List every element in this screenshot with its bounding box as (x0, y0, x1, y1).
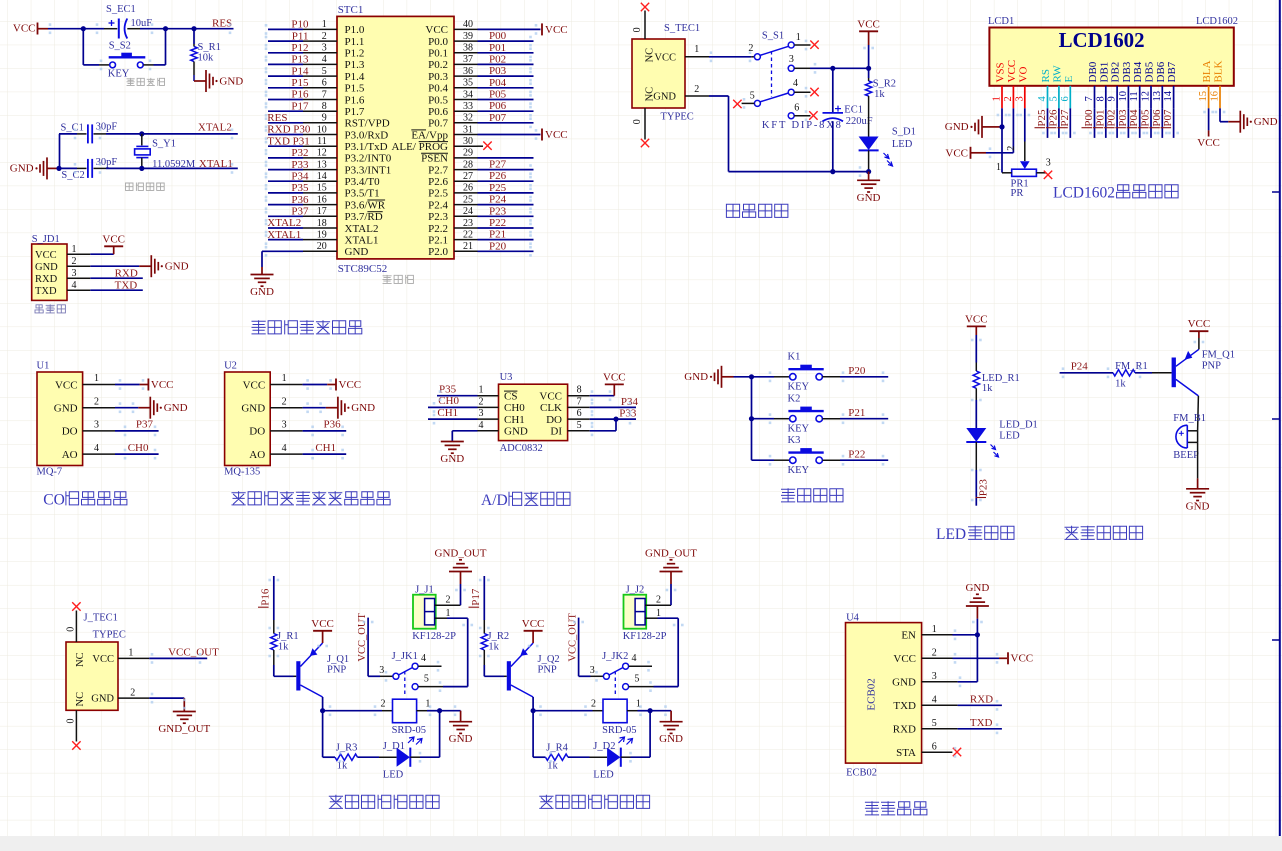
svg-text:P04: P04 (1128, 109, 1140, 127)
svg-text:DB1: DB1 (1098, 62, 1110, 83)
svg-text:P37: P37 (291, 206, 309, 218)
svg-text:P3.4/T0: P3.4/T0 (345, 176, 381, 188)
svg-text:EC1: EC1 (844, 105, 863, 116)
wire J_D1 to right branch (410, 756, 420, 758)
svg-text:DB3: DB3 (1121, 61, 1133, 82)
svg-text:FM_B1: FM_B1 (1173, 413, 1206, 424)
svg-text:K1: K1 (788, 352, 801, 363)
U1 DO wire net P37 (115, 430, 159, 432)
svg-text:1: 1 (996, 162, 1001, 173)
svg-text:SRD-05: SRD-05 (602, 725, 636, 736)
svg-text:CH0: CH0 (504, 402, 525, 414)
wire gnd up to S_C1 row (59, 134, 61, 169)
svg-text:38: 38 (463, 43, 473, 54)
svg-text:NC: NC (75, 652, 86, 667)
svg-text:P23: P23 (977, 479, 989, 497)
connector S_TEC1 TYPEC body (632, 39, 685, 108)
svg-text:P2.7: P2.7 (428, 164, 448, 176)
U4 pin 1 EN (901, 624, 936, 642)
svg-text:P04: P04 (489, 77, 507, 89)
svg-text:P11: P11 (292, 30, 309, 42)
svg-text:2: 2 (1003, 96, 1014, 101)
svg-text:28: 28 (463, 159, 473, 170)
coil right wire (417, 710, 427, 712)
mcu pin 27 P2.6 (428, 170, 533, 188)
svg-text:P26: P26 (489, 170, 507, 182)
connector S_JD1 pin 1 VCC (35, 244, 90, 261)
S_TEC1 bottom pin 0 no-connect (632, 108, 649, 147)
svg-text:DI: DI (550, 426, 562, 438)
S_TEC1 pin 1 VCC (654, 44, 754, 64)
power port VCC U2 (335, 379, 337, 391)
svg-text:P3.0/RxD: P3.0/RxD (345, 129, 389, 141)
svg-text:P05: P05 (489, 89, 507, 101)
svg-text:P35: P35 (439, 384, 457, 396)
node junction crystal bottom (139, 166, 144, 171)
lcd data wire and net label P07 (1161, 108, 1175, 138)
svg-text:RW: RW (1051, 65, 1063, 83)
svg-text:ECB02: ECB02 (846, 768, 877, 779)
svg-text:S_EC1: S_EC1 (106, 4, 136, 15)
svg-text:1: 1 (479, 385, 484, 396)
mcu pin 13 P3.3/INT1 (268, 159, 391, 177)
svg-text:GND: GND (241, 403, 265, 415)
svg-text:39: 39 (463, 31, 473, 42)
svg-text:P17: P17 (470, 588, 482, 606)
J_TEC1 bottom pin 0 (66, 710, 81, 749)
svg-text:TXD: TXD (115, 279, 138, 291)
mcu pin 37 P0.2 (428, 53, 533, 71)
svg-text:15: 15 (1198, 91, 1209, 102)
svg-text:3: 3 (94, 420, 99, 431)
adc pin 7 CLK (540, 396, 590, 414)
svg-text:P2.1: P2.1 (428, 234, 448, 246)
svg-text:8: 8 (1095, 96, 1106, 101)
mcu U? STC1 body (337, 16, 454, 259)
node junction coil right (437, 708, 442, 713)
svg-text:P25: P25 (1036, 109, 1048, 127)
node junction adc DO-DI (613, 417, 618, 422)
svg-text:VCC: VCC (654, 53, 676, 64)
adc pin 4 GND (478, 420, 528, 438)
svg-text:GND_OUT: GND_OUT (158, 723, 210, 735)
node junction coil right (648, 708, 653, 713)
svg-text:P06: P06 (1151, 109, 1163, 127)
svg-text:18: 18 (317, 218, 327, 229)
svg-text:1: 1 (128, 648, 133, 659)
svg-text:P0.7: P0.7 (428, 118, 448, 130)
svg-text:10k: 10k (198, 52, 215, 63)
svg-text:J_J1: J_J1 (415, 584, 434, 595)
svg-text:1: 1 (656, 608, 661, 619)
svg-text:0: 0 (66, 627, 77, 632)
svg-text:P02: P02 (489, 53, 506, 65)
power ground GND adc (451, 440, 453, 443)
svg-text:S_C2: S_C2 (61, 170, 84, 181)
mcu pin 16 P3.6/WR (268, 194, 386, 212)
sensor U1 MQ-7 body (37, 372, 83, 466)
sensor U2 MQ-135 body (225, 372, 271, 466)
svg-text:29: 29 (463, 148, 473, 159)
wire S_C1 to XTAL2 (106, 133, 238, 135)
svg-text:1: 1 (322, 19, 327, 30)
power ground GND buzzer (1197, 478, 1199, 488)
svg-text:P2.2: P2.2 (428, 223, 448, 235)
resistor S_R2 1k (865, 68, 896, 105)
svg-text:31: 31 (463, 124, 473, 135)
svg-text:TYPEC: TYPEC (661, 112, 694, 123)
power ground GND keys (722, 376, 734, 378)
adc pin 5 DI (550, 420, 589, 438)
svg-text:P2.3: P2.3 (428, 211, 448, 223)
svg-text:P22: P22 (848, 449, 865, 461)
node junction led bottom (866, 169, 871, 174)
svg-text:10: 10 (317, 124, 327, 135)
svg-text:P10: P10 (291, 19, 309, 31)
svg-text:VCC: VCC (102, 233, 125, 245)
potentiometer PR1 (996, 146, 1052, 200)
svg-text:LED_D1: LED_D1 (999, 420, 1038, 431)
lcd BLK wire to GND (1219, 108, 1221, 121)
adc pin 2 CH0 (478, 396, 526, 414)
power ground GND S_JD1 (139, 265, 151, 267)
mcu pin 40 VCC (425, 19, 567, 36)
svg-text:P05: P05 (1140, 109, 1152, 127)
svg-text:XTAL1: XTAL1 (345, 234, 379, 246)
node junction at S_R1 (191, 26, 196, 31)
svg-text:1k: 1k (874, 89, 885, 100)
svg-text:1: 1 (796, 32, 801, 43)
U1 pin 3 DO (62, 420, 115, 438)
mcu pin 9 RST/VPD (267, 112, 389, 130)
svg-text:26: 26 (463, 183, 473, 194)
sheet border right (1272, 0, 1280, 836)
wire coil to gnd (650, 710, 671, 712)
svg-text:MQ-7: MQ-7 (37, 467, 63, 478)
svg-text:P21: P21 (489, 229, 506, 241)
svg-text:VCC_OUT: VCC_OUT (357, 613, 368, 662)
U2 AO wire net CH1 (303, 453, 347, 455)
adc CH1 wire (428, 418, 478, 420)
svg-text:P24: P24 (489, 194, 507, 206)
mcu pin 2 P1.1 (268, 30, 364, 48)
wire collector to coil row (322, 697, 324, 711)
svg-text:J_R1: J_R1 (277, 631, 299, 642)
connector S_JD1 pin 3 RXD (35, 268, 90, 285)
svg-text:1: 1 (446, 608, 451, 619)
node junction right of S_EC1 (163, 26, 168, 31)
svg-text:LED: LED (383, 770, 404, 781)
svg-text:BEEP: BEEP (1173, 450, 1199, 461)
lcd data wire and net label P01 (1093, 108, 1107, 138)
node junction key1 (749, 374, 754, 379)
power ground GND lcd left (982, 126, 994, 128)
title 蓝牙模块 (865, 802, 927, 815)
svg-text:6: 6 (577, 408, 582, 419)
svg-text:P34: P34 (621, 396, 639, 408)
svg-text:VCC: VCC (1188, 318, 1211, 330)
svg-text:P15: P15 (291, 77, 309, 89)
svg-text:14: 14 (1163, 90, 1174, 101)
svg-text:DB0: DB0 (1087, 61, 1099, 82)
svg-text:A/D: A/D (481, 492, 508, 509)
svg-text:2: 2 (932, 647, 937, 658)
svg-text:LED: LED (999, 431, 1020, 442)
svg-text:BLA: BLA (1201, 60, 1213, 82)
lcd pin 14 DB7 (1163, 61, 1178, 108)
svg-text:LCD1602: LCD1602 (1053, 185, 1115, 202)
svg-text:12: 12 (1141, 91, 1152, 102)
wire down to flyback row (532, 711, 534, 758)
title 蜂鸣器电路 (1065, 526, 1143, 539)
svg-text:P2.5: P2.5 (428, 188, 448, 200)
svg-text:3: 3 (932, 671, 937, 682)
svg-text:P3.3/INT1: P3.3/INT1 (345, 164, 392, 176)
svg-text:36: 36 (463, 66, 473, 77)
svg-text:35: 35 (463, 78, 473, 89)
U4 pin 4 TXD (893, 694, 936, 712)
connector S_JD1 pin 4 TXD (35, 280, 90, 297)
svg-text:33: 33 (463, 101, 473, 112)
svg-text:GND: GND (1186, 500, 1210, 512)
svg-text:23: 23 (463, 218, 473, 229)
switch S_S1 KFT DIP-8X8 (733, 31, 841, 131)
resistor J_R3 1k flyback (335, 743, 358, 772)
adc CLK wire net P34 (590, 406, 636, 408)
svg-text:13: 13 (1152, 91, 1163, 102)
svg-text:8: 8 (322, 101, 327, 112)
svg-text:KF128-2P: KF128-2P (412, 631, 456, 642)
svg-text:5: 5 (322, 66, 327, 77)
svg-text:2: 2 (130, 688, 135, 699)
svg-text:S_Y1: S_Y1 (152, 139, 176, 150)
wire emitter to VCC (1198, 338, 1200, 349)
svg-text:J_D1: J_D1 (383, 741, 405, 752)
svg-text:37: 37 (463, 54, 473, 65)
svg-text:16: 16 (1210, 91, 1221, 102)
svg-text:P17: P17 (291, 100, 309, 112)
svg-text:P2.0: P2.0 (428, 246, 448, 258)
svg-text:XTAL1: XTAL1 (267, 229, 301, 241)
svg-text:GND: GND (892, 677, 916, 689)
power ground GND relay (460, 711, 462, 722)
wire coil to gnd (440, 710, 461, 712)
svg-text:S_D1: S_D1 (892, 127, 916, 138)
mcu pin 5 P1.4 (268, 65, 365, 83)
svg-text:PR: PR (1011, 188, 1024, 199)
svg-text:P34: P34 (291, 170, 309, 182)
svg-text:VO: VO (1017, 67, 1029, 83)
wire S_JD1 pin3 RXD (90, 277, 143, 279)
svg-text:GND: GND (684, 371, 708, 383)
svg-text:P13: P13 (291, 54, 309, 66)
svg-text:K3: K3 (788, 435, 801, 446)
svg-text:U3: U3 (500, 372, 513, 383)
node junction key2 (749, 416, 754, 421)
svg-text:1: 1 (282, 373, 287, 384)
svg-text:CH1: CH1 (315, 442, 336, 454)
svg-text:DO: DO (62, 426, 78, 438)
svg-text:GND_OUT: GND_OUT (435, 547, 487, 559)
adc pin 8 VCC (539, 385, 589, 403)
mcu pin 6 P1.5 (268, 77, 365, 95)
buzzer FM_B1 BEEP (1173, 413, 1206, 461)
svg-text:P36: P36 (291, 194, 309, 206)
svg-text:27: 27 (463, 171, 473, 182)
mcu pin 29 PSEN (421, 148, 533, 165)
U4 TXD wire net RXD (922, 704, 958, 706)
svg-text:1: 1 (94, 373, 99, 384)
U1 pin 2 GND (54, 396, 115, 414)
U4 pin 5 RXD (893, 718, 937, 736)
svg-text:11: 11 (1129, 91, 1140, 101)
connector J_TEC1 TYPEC body (66, 642, 118, 710)
svg-text:0: 0 (66, 719, 77, 724)
wire S_EC1 to RES node (140, 28, 234, 30)
node junction U4 EN-GND (975, 632, 980, 637)
svg-text:GND: GND (659, 733, 683, 745)
adc DI wire up to DO (590, 430, 616, 432)
svg-text:J_Q1: J_Q1 (327, 654, 349, 665)
lcd VSS wire to gnd (1001, 108, 1003, 172)
svg-text:2: 2 (322, 31, 327, 42)
wire gnd down and along bottom (728, 96, 730, 172)
compile marker blips (49, 23, 1226, 762)
svg-text:AO: AO (249, 449, 265, 461)
svg-text:TXD: TXD (970, 717, 993, 729)
U1 AO wire net CH0 (115, 453, 159, 455)
svg-text:7: 7 (577, 396, 582, 407)
lcd pin 7 DB0 (1084, 61, 1099, 108)
wire S_C2 to XTAL1 (106, 167, 238, 169)
lcd pin 6 E (1060, 76, 1075, 109)
svg-text:4: 4 (282, 443, 287, 454)
svg-text:4: 4 (1037, 96, 1048, 102)
svg-text:TXD: TXD (35, 286, 57, 297)
wire collector to coil row (532, 697, 534, 711)
adc pin 3 CH1 (478, 408, 525, 426)
switch J_JK2 (568, 613, 654, 697)
lcd data wire and net label P03 (1115, 108, 1129, 138)
U2 gnd wire (303, 407, 326, 409)
svg-text:U4: U4 (846, 612, 860, 623)
power ground GND relay (670, 711, 672, 722)
svg-text:5: 5 (424, 673, 429, 684)
mcu pin 32 P0.7 (428, 112, 533, 130)
wire LED_D1 to P23 (975, 442, 977, 470)
svg-text:P20: P20 (848, 365, 866, 377)
svg-text:P01: P01 (489, 42, 506, 54)
svg-text:GND: GND (35, 262, 58, 273)
svg-text:6: 6 (932, 741, 937, 752)
mcu pin 22 P2.1 (428, 229, 533, 247)
svg-text:14: 14 (317, 171, 327, 182)
svg-text:GND: GND (449, 733, 473, 745)
svg-text:LED: LED (892, 139, 913, 150)
node junction coil left (531, 708, 536, 713)
svg-text:P36: P36 (323, 419, 341, 431)
svg-text:P26: P26 (1047, 109, 1059, 127)
svg-text:10uF: 10uF (131, 18, 153, 29)
power ground GND U4 top (965, 582, 989, 635)
window bottom bar (0, 836, 1282, 851)
J_TEC1 pin 1 VCC_OUT (92, 647, 219, 665)
lcd pin 12 DB5 (1141, 61, 1156, 108)
title 继电器控制电路 (540, 795, 650, 808)
svg-text:EA/Vpp: EA/Vpp (411, 129, 448, 141)
svg-text:P20: P20 (489, 240, 507, 252)
svg-text:40: 40 (463, 19, 473, 30)
mcu pin 30 ALE/PROG (391, 136, 491, 153)
svg-text:P35: P35 (291, 182, 309, 194)
svg-text:3: 3 (322, 43, 327, 54)
svg-text:VCC: VCC (92, 654, 114, 665)
svg-text:1k: 1k (1115, 378, 1126, 389)
svg-text:GND: GND (653, 92, 676, 103)
svg-text:CS: CS (504, 391, 517, 403)
lcd pin 3 VO (1014, 67, 1029, 109)
svg-text:VCC: VCC (603, 371, 626, 383)
adc VCC wire (590, 395, 615, 397)
svg-text:P00: P00 (1083, 109, 1095, 127)
mcu pin 31 EA/Vpp (411, 124, 567, 141)
svg-text:P3.2/INT0: P3.2/INT0 (345, 153, 392, 165)
svg-text:P2.4: P2.4 (428, 199, 448, 211)
svg-text:P24: P24 (1071, 361, 1089, 373)
svg-text:9: 9 (1107, 96, 1118, 101)
svg-text:5: 5 (750, 90, 755, 101)
svg-text:P3.5/T1: P3.5/T1 (345, 188, 380, 200)
connector J_J2 KF128-2P (623, 584, 671, 641)
svg-text:9: 9 (322, 113, 327, 124)
svg-text:U1: U1 (37, 360, 50, 371)
resistor J_R4 1k flyback (546, 743, 569, 772)
mcu pin 1 P1.0 (268, 19, 365, 37)
svg-text:22: 22 (463, 229, 473, 240)
led S_D1 (859, 105, 916, 172)
svg-text:4: 4 (322, 54, 327, 65)
svg-text:P25: P25 (489, 182, 507, 194)
mcu pin 34 P0.5 (428, 89, 533, 107)
svg-text:0: 0 (632, 27, 643, 32)
svg-text:VCC: VCC (425, 24, 448, 36)
resistor J_R2 1k (481, 631, 509, 653)
svg-text:CH0: CH0 (438, 395, 459, 407)
transistor J_Q2 PNP (507, 643, 560, 697)
wire P24 to FM_R1 (1060, 372, 1113, 374)
svg-text:VCC: VCC (522, 618, 545, 630)
svg-text:P03: P03 (489, 65, 507, 77)
svg-text:VCC_OUT: VCC_OUT (568, 613, 579, 662)
J_TEC1 pin 2 GND_OUT (91, 688, 184, 705)
svg-text:3: 3 (379, 665, 384, 676)
title 有害混合气体监测模块 (232, 492, 390, 505)
svg-text:P3.1/TxD: P3.1/TxD (345, 141, 388, 153)
power ground GND U1 (138, 407, 150, 409)
svg-text:8: 8 (577, 385, 582, 396)
wire J_R2 to base (483, 650, 485, 665)
mcu pin 8 P1.7 (268, 100, 365, 118)
svg-text:VSS: VSS (995, 62, 1007, 82)
svg-text:P21: P21 (848, 407, 865, 419)
svg-text:J_D2: J_D2 (593, 741, 615, 752)
power port VCC led (967, 325, 986, 327)
lcd pin 1 VSS (992, 62, 1007, 108)
wire S_JD1 pin1 to VCC (90, 253, 113, 255)
U2 vcc wire (303, 384, 328, 386)
svg-text:GND_OUT: GND_OUT (645, 547, 697, 559)
node junction at S_S2 left branch (81, 26, 86, 31)
